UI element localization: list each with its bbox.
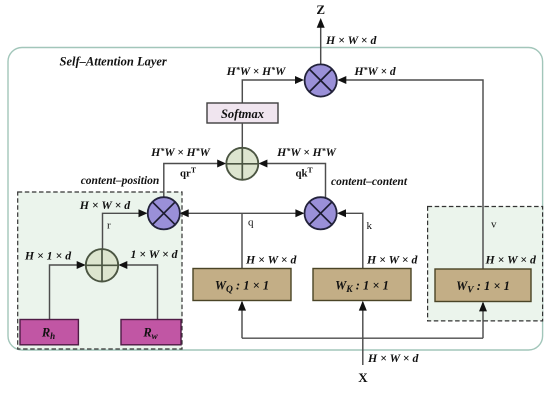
svg-text:content–position: content–position bbox=[81, 175, 160, 187]
softmax box bbox=[207, 103, 278, 123]
svg-text:H × W × d: H × W × d bbox=[366, 253, 418, 267]
wire: q from Wq box feeding both multiplies bbox=[180, 209, 305, 268]
svg-text:H × W × d: H × W × d bbox=[367, 351, 419, 365]
wire: X input trunk and branches into Wq, Wk, Wv bbox=[238, 301, 487, 365]
svg-text:H × 1 × d: H × 1 × d bbox=[24, 249, 72, 263]
svg-text:Self–Attention Layer: Self–Attention Layer bbox=[60, 55, 167, 69]
wire: v line from Wv box up to top multiply bbox=[337, 76, 483, 269]
wire: r into content-position multiply bbox=[103, 209, 148, 250]
box Rw bbox=[121, 320, 181, 345]
svg-text:H*W × H*W: H*W × H*W bbox=[226, 64, 286, 78]
svg-text:content–content: content–content bbox=[331, 176, 408, 188]
multiplier: content-position circle bbox=[148, 197, 180, 229]
svg-text:H*W × H*W: H*W × H*W bbox=[276, 145, 336, 159]
box Wv bbox=[435, 269, 531, 302]
svg-text:v: v bbox=[491, 219, 497, 231]
wire: k from Wk box into content-content multiply bbox=[337, 209, 363, 268]
multiplier: content-content circle bbox=[305, 197, 337, 229]
svg-text:k: k bbox=[367, 220, 373, 232]
content-position dashed box bbox=[18, 192, 182, 349]
wire: content-position product up into adder bbox=[164, 160, 226, 199]
adder: position embedding plus circle bbox=[86, 249, 118, 281]
svg-text:H*W × H*W: H*W × H*W bbox=[150, 145, 210, 159]
svg-text:X: X bbox=[358, 370, 368, 385]
svg-text:Z: Z bbox=[316, 2, 325, 17]
wire: Rw into position adder bbox=[118, 261, 157, 320]
svg-text:r: r bbox=[107, 220, 111, 232]
adder: central plus circle bbox=[226, 148, 258, 180]
wire: Z output with up arrow bbox=[317, 18, 325, 64]
box Wq bbox=[193, 269, 291, 301]
v-branch dashed box bbox=[428, 207, 543, 321]
svg-text:1 × W × d: 1 × W × d bbox=[130, 247, 178, 261]
box Wk bbox=[313, 269, 411, 301]
svg-text:q: q bbox=[248, 217, 254, 229]
svg-text:H*W × d: H*W × d bbox=[353, 64, 396, 78]
svg-text:H × W × d: H × W × d bbox=[245, 253, 297, 267]
wire: adder output up into softmax bbox=[241, 123, 243, 148]
svg-text:H × W × d: H × W × d bbox=[325, 33, 377, 47]
box Rh bbox=[20, 320, 78, 345]
wire: softmax output to top multiply bbox=[242, 76, 304, 103]
svg-text:H × W × d: H × W × d bbox=[485, 253, 537, 267]
self-attention layer container bbox=[8, 48, 543, 351]
svg-text:H × W × d: H × W × d bbox=[79, 198, 131, 212]
svg-text:Softmax: Softmax bbox=[221, 107, 264, 121]
wire: content-content product up into adder bbox=[258, 160, 325, 199]
multiplier: top matrix-multiply circle bbox=[305, 64, 337, 96]
wire: Rh into position adder bbox=[50, 261, 86, 320]
